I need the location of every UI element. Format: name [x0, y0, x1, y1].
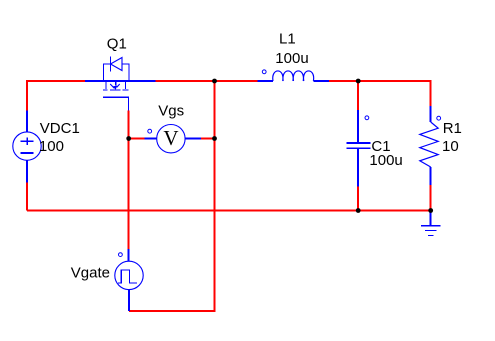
L1 polarity marker [262, 70, 266, 74]
VDC1 plus sign [20, 138, 33, 146]
svg-text:100: 100 [39, 138, 64, 155]
svg-text:V: V [163, 126, 178, 150]
R1 polarity marker [437, 116, 441, 120]
junction node C1 bottom [356, 208, 361, 213]
svg-text:100u: 100u [369, 152, 402, 169]
wire VDC1 top lead blue [26, 110, 28, 132]
Q1 body arrow diagonals [110, 84, 120, 88]
Vgs polarity marker [148, 129, 152, 133]
svg-text:VDC1: VDC1 [40, 120, 80, 137]
wire Vgate leads blue [128, 249, 130, 311]
wire VDC1 minus to bottom rail [26, 182, 28, 210]
wire Vgs meter leads blue [144, 138, 201, 140]
wire C1 branch bottom [357, 187, 359, 211]
wire Vgs left lead red part [129, 138, 145, 140]
svg-text:10: 10 [442, 138, 459, 155]
junction node R1 bottom / ground [428, 208, 433, 213]
wire L1 right to corner down to R1 [329, 81, 431, 106]
Q1 channel bars [103, 89, 128, 91]
svg-text:Vgs: Vgs [158, 102, 184, 119]
junction node L1 / C1 top [356, 79, 361, 84]
wire Vgate return loop [129, 81, 215, 311]
junction node Vgs right / return [212, 136, 217, 141]
svg-text:Vgate: Vgate [71, 264, 110, 281]
wire bottom rail [27, 210, 431, 212]
resistor R1 zigzag [420, 122, 438, 167]
svg-text:R1: R1 [443, 120, 462, 137]
capacitor C1 [357, 110, 359, 187]
wire C1 branch top [357, 81, 359, 110]
wire top-left rail [27, 81, 85, 110]
ground stub [430, 211, 432, 225]
wire R1 bottom [430, 185, 432, 211]
inductor L1 leads [257, 80, 329, 82]
Q1 body arrowhead [113, 86, 118, 90]
Q1 diode cathode bar [110, 57, 112, 72]
Vgate polarity marker [119, 253, 123, 257]
svg-text:L1: L1 [279, 30, 296, 47]
wire Q1 source to L1 [155, 80, 257, 82]
voltmeter Vgs circle [157, 125, 185, 153]
wire VDC1 bottom lead blue [26, 160, 28, 182]
Q1 gate bar and gate lead [103, 97, 128, 110]
pulse source Vgate circle [115, 261, 143, 289]
Q1 drain-source main line [85, 80, 155, 82]
voltage source VDC1 circle [13, 132, 41, 160]
VDC1 minus sign [20, 152, 33, 154]
wire Vgs right lead red part [201, 138, 215, 140]
wire gate vertical [128, 110, 130, 248]
inductor L1 coil [273, 71, 314, 81]
svg-text:100u: 100u [275, 50, 308, 67]
junction node Q1 source / L1 [212, 79, 217, 84]
Q1 channel fingers [106, 82, 126, 89]
resistor R1 leads [430, 106, 432, 185]
svg-text:Q1: Q1 [107, 35, 127, 52]
junction node gate / Vgs left [126, 136, 131, 141]
Vgate square wave glyph [118, 270, 137, 283]
C1 polarity marker [365, 116, 369, 120]
Q1 diode triangle [111, 58, 123, 71]
Q1 body diode loop [104, 64, 130, 81]
